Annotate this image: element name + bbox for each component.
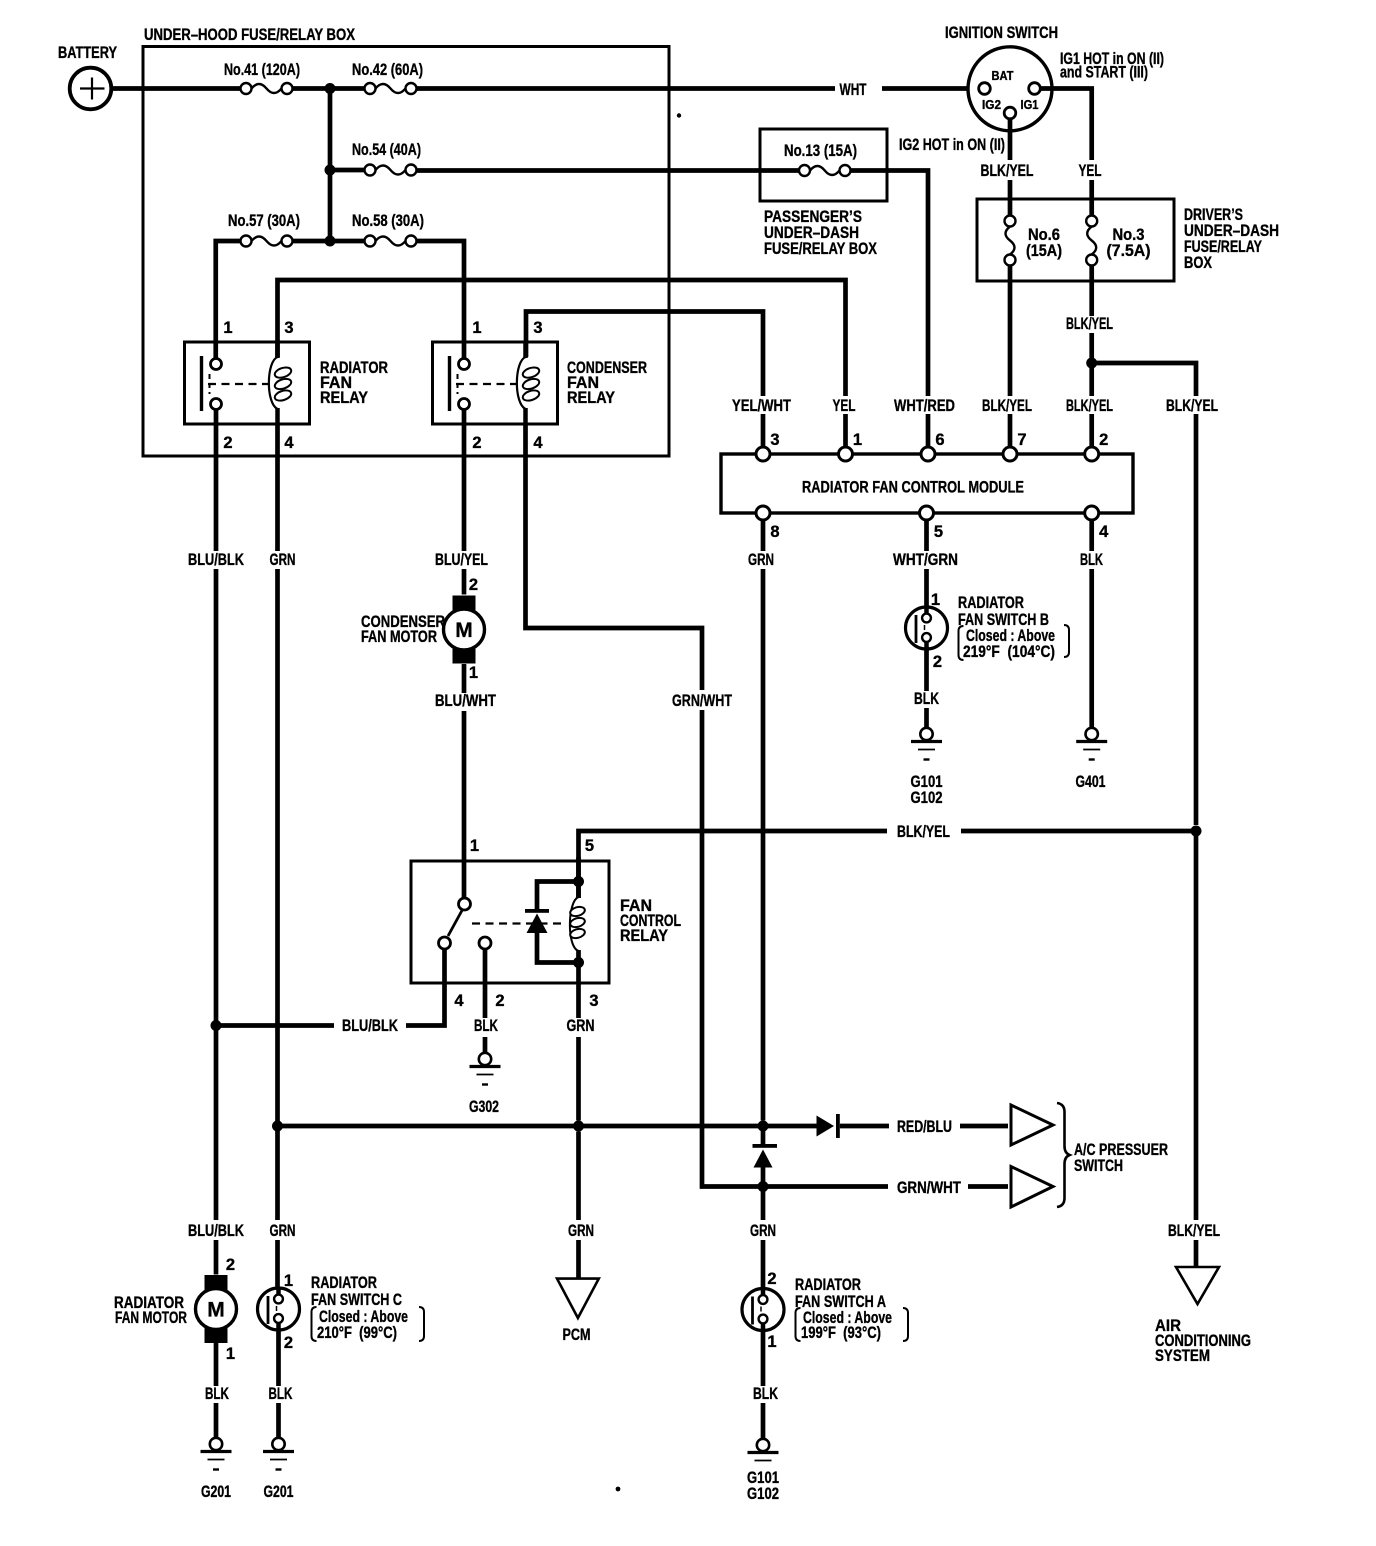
radiator fan switch C (258, 1288, 300, 1330)
svg-text:5: 5 (585, 837, 594, 855)
svg-text:4: 4 (284, 434, 294, 452)
wire trunk node A down (328, 89, 333, 242)
ground G101 G102 bottom (748, 1439, 779, 1461)
condenser fan relay box (433, 342, 558, 424)
svg-text:RADIATOR FAN CONTROL MODULE: RADIATOR FAN CONTROL MODULE (802, 478, 1024, 497)
svg-text:YEL/WHT: YEL/WHT (732, 397, 791, 415)
svg-text:M: M (207, 1299, 225, 1322)
svg-text:WHT/GRN: WHT/GRN (893, 551, 958, 569)
label BLU/YEL (432, 551, 491, 569)
label YEL/WHT at module pin 3 (729, 396, 794, 414)
label CONDENSER FAN RELAY (567, 359, 647, 407)
diode D2 horizontal (817, 1114, 840, 1138)
label RADIATOR FAN MOTOR (114, 1294, 187, 1327)
svg-text:210°F (99°C): 210°F (99°C) (317, 1324, 397, 1342)
wire WHT fuse No.42 to ignition BAT (417, 86, 979, 91)
fan control relay coil (569, 857, 586, 983)
module pin 5 circle (920, 506, 934, 520)
label GRN upper left (264, 551, 301, 569)
wire WHT/RED fuse No.13 to module pin 6 (851, 171, 929, 448)
svg-text:BLK/YEL: BLK/YEL (1166, 397, 1218, 415)
svg-text:1: 1 (767, 1333, 776, 1351)
wire WHT/GRN module pin 5 to switch B (924, 520, 929, 607)
svg-text:2: 2 (226, 1256, 235, 1274)
svg-text:WHT/RED: WHT/RED (894, 397, 955, 415)
bracket right switch B (1064, 625, 1069, 657)
svg-text:5: 5 (934, 523, 943, 541)
wire BLU/WHT condenser motor to fan control relay pin 1 (462, 664, 467, 899)
label YEL (1074, 161, 1106, 180)
svg-text:GRN/WHT: GRN/WHT (897, 1179, 961, 1197)
passenger's under-dash fuse/relay box outline (760, 129, 887, 201)
ground G201 left (201, 1438, 232, 1470)
junction BLK/YEL branch (1086, 358, 1097, 369)
module pin 7 circle (1003, 447, 1017, 461)
air conditioning connector triangle (1176, 1267, 1219, 1304)
fuse No.58 (30A) (365, 236, 417, 247)
svg-text:2: 2 (472, 434, 481, 452)
wire YEL/WHT segment to module pin 3 (761, 414, 766, 448)
svg-text:No.57 (30A): No.57 (30A) (228, 212, 300, 230)
label BLK switch A (750, 1386, 781, 1403)
junction GRN/WHT wire (758, 1181, 769, 1192)
fan control relay switch arm (448, 910, 463, 937)
svg-text:8: 8 (770, 523, 779, 541)
svg-text:RADIATOR: RADIATOR (958, 594, 1024, 612)
svg-text:2: 2 (767, 1270, 776, 1288)
fuse No.13 (15A) (799, 165, 851, 176)
under-hood fuse/relay box outline (143, 47, 669, 457)
junction BLU/BLK at fan control relay pin 4 wire (211, 1020, 222, 1031)
svg-text:219°F (104°C): 219°F (104°C) (963, 643, 1055, 661)
svg-text:BLK/YEL: BLK/YEL (897, 823, 950, 841)
svg-text:M: M (455, 619, 473, 642)
radiator fan relay box (185, 342, 310, 424)
svg-text:1: 1 (472, 319, 481, 337)
label BLK/YEL at module pin 2 (1063, 396, 1116, 414)
label G101 G102 mid (911, 773, 943, 807)
svg-text:IG1: IG1 (1021, 98, 1039, 112)
svg-text:3: 3 (770, 431, 779, 449)
condenser fan relay internals (450, 342, 541, 424)
svg-text:BLU/WHT: BLU/WHT (435, 692, 496, 710)
ignition pin BAT (979, 83, 991, 95)
bracket left switch C (312, 1307, 317, 1341)
wire BLK radiator motor to ground G201 (214, 1343, 219, 1438)
svg-text:BLU/YEL: BLU/YEL (435, 551, 488, 569)
fan control relay box (411, 861, 609, 983)
svg-text:GRN: GRN (567, 1017, 595, 1035)
fuse No.6 (15A) (1005, 216, 1016, 266)
svg-text:G102: G102 (747, 1485, 779, 1503)
wire trunk to fuse No.58 (330, 239, 365, 244)
svg-text:1: 1 (223, 319, 232, 337)
wire ignition IG2 to driver fuse No.6 (1008, 119, 1013, 216)
svg-text:RELAY: RELAY (320, 389, 368, 407)
label YEL at module pin 1 (829, 396, 859, 414)
fan control relay dashed link (472, 922, 563, 924)
label G101 G102 bottom (747, 1469, 779, 1503)
module pin 4 circle (1085, 506, 1099, 520)
wire ignition IG1 to driver fuse No.3 (1040, 89, 1091, 216)
wire BLK/YEL fuse No.6 to module pin 7 (1008, 266, 1013, 448)
junction GRN column at long wire (758, 1121, 769, 1132)
svg-text:No.41 (120A): No.41 (120A) (224, 61, 300, 79)
wire GRN module pin 8 down (761, 520, 766, 1121)
wire BLU/BLK radiator relay pin 2 down to motor (214, 410, 219, 1275)
svg-text:RADIATOR: RADIATOR (795, 1276, 861, 1294)
svg-text:BATTERY: BATTERY (58, 44, 117, 62)
wire GRN radiator relay pin 4 down to switch C (275, 424, 280, 1288)
module pin 6 circle (921, 447, 935, 461)
wire radiator relay pin 3 to module pin 1 (278, 280, 846, 396)
svg-text:1: 1 (853, 431, 862, 449)
svg-text:BLU/BLK: BLU/BLK (342, 1017, 398, 1035)
svg-text:GRN: GRN (750, 1222, 776, 1240)
svg-text:(15A): (15A) (1026, 242, 1062, 260)
svg-text:G302: G302 (469, 1098, 499, 1116)
label BLK/YEL on horizontal (889, 822, 959, 841)
svg-text:1: 1 (284, 1272, 293, 1290)
ignition switch circle (968, 47, 1052, 131)
radiator fan relay internals (202, 342, 293, 424)
svg-text:RELAY: RELAY (567, 389, 615, 407)
svg-text:IGNITION SWITCH: IGNITION SWITCH (945, 24, 1058, 42)
fuse No.3 (7.5A) (1086, 216, 1097, 266)
radiator fan control module box (721, 454, 1133, 513)
wire GRN column down to switch A (761, 1187, 766, 1289)
wire BLK switch B to ground (924, 649, 929, 728)
svg-text:SYSTEM: SYSTEM (1155, 1347, 1210, 1365)
svg-text:G102: G102 (911, 789, 943, 807)
label GRN/WHT column (669, 691, 735, 710)
label GRN at pin 3 (563, 1018, 597, 1036)
fan control relay contact pin 2 (479, 937, 491, 949)
svg-text:6: 6 (935, 431, 944, 449)
module pin 2 circle (1085, 447, 1099, 461)
label BLU/BLK lower (185, 1221, 247, 1240)
junction GRN wire at fan relay pin3 (573, 1121, 584, 1132)
svg-text:No.42 (60A): No.42 (60A) (352, 61, 423, 79)
label RED/BLU (891, 1118, 959, 1136)
svg-text:WHT: WHT (840, 81, 867, 99)
wire fan relay pin 4 to BLU/BLK junction (216, 949, 445, 1026)
wire BLK switch C to ground G201 (276, 1330, 281, 1438)
svg-text:1: 1 (931, 591, 940, 609)
svg-text:PCM: PCM (563, 1326, 591, 1344)
ground G401 (1076, 728, 1107, 760)
wire battery to fuse No.41 (111, 86, 241, 91)
svg-text:G201: G201 (264, 1483, 294, 1501)
svg-text:3: 3 (589, 992, 598, 1010)
svg-text:BLK: BLK (474, 1017, 498, 1035)
svg-text:FAN MOTOR: FAN MOTOR (361, 628, 437, 646)
wire RED/BLU diode D2 to A/C switch (840, 1124, 1008, 1129)
brace A/C pressure switch (1057, 1103, 1070, 1207)
svg-text:4: 4 (454, 992, 464, 1010)
condenser fan motor M2 (444, 596, 485, 664)
svg-text:and START (III): and START (III) (1060, 64, 1148, 82)
wire fuse No.57 to trunk (293, 239, 331, 244)
ignition pin IG2 (1004, 107, 1016, 119)
label BLK/YEL right column (1163, 396, 1221, 414)
wire GRN column through diode D3 (761, 1126, 766, 1187)
label BLK/YEL at module pin 7 (979, 396, 1035, 414)
svg-text:GRN: GRN (748, 551, 774, 569)
label GRN lower left (264, 1221, 301, 1240)
module pin 3 circle (756, 447, 770, 461)
ground G201 right (263, 1438, 294, 1470)
label No.6 (15A) (1026, 226, 1062, 260)
wire diode D1 bottom lead (537, 933, 576, 963)
bracket left switch A (796, 1308, 801, 1341)
svg-text:No.58 (30A): No.58 (30A) (352, 212, 424, 230)
wire fuse No.58 right leg down to condenser relay pin 1 (417, 241, 465, 358)
A/C pressure switch connector triangle 1 (1011, 1105, 1053, 1145)
wire YEL segment to module pin 1 (843, 414, 848, 448)
fan control relay contact pin 4 (439, 937, 451, 949)
fuse No.42 (60A) (365, 83, 417, 94)
label BLK at G302 (471, 1018, 501, 1036)
junction BLK/YEL column (1191, 826, 1202, 837)
label GRN above PCM (563, 1221, 599, 1240)
label BLK radiator motor (202, 1386, 232, 1403)
label DRIVER'S UNDER-DASH FUSE/RELAY BOX (1184, 206, 1279, 272)
svg-text:BLK/YEL: BLK/YEL (1066, 397, 1113, 415)
svg-text:(7.5A): (7.5A) (1107, 242, 1151, 260)
svg-text:7: 7 (1017, 431, 1026, 449)
label BLU/WHT (432, 693, 499, 711)
label CONDENSER FAN MOTOR (361, 613, 445, 646)
svg-text:BLU/BLK: BLU/BLK (188, 551, 244, 569)
fuse No.54 (40A) (365, 165, 417, 176)
wire BLK module pin 4 to ground G401 (1089, 520, 1094, 728)
svg-text:RELAY: RELAY (620, 927, 668, 945)
svg-text:GRN/WHT: GRN/WHT (672, 692, 732, 710)
svg-text:BLK: BLK (914, 690, 939, 708)
svg-text:4: 4 (1099, 523, 1109, 541)
wire fuse No.57 left leg down to relay pin 1 (216, 241, 241, 358)
svg-text:2: 2 (495, 992, 504, 1010)
label IG1 HOT in ON (II) and START (III) (1060, 50, 1164, 82)
svg-text:G401: G401 (1076, 773, 1106, 791)
label BLK/YEL bottom (1165, 1221, 1223, 1240)
label BLK/YEL under IG2 (977, 161, 1037, 180)
label A/C PRESSUER SWITCH (1074, 1141, 1168, 1175)
junction node A (325, 83, 336, 94)
svg-text:2: 2 (1099, 431, 1108, 449)
module pin 1 circle (839, 447, 853, 461)
driver's under-dash fuse/relay box outline (977, 199, 1174, 281)
wire diode D1 top lead (537, 882, 576, 910)
wire fuse No.41 to node A (293, 86, 365, 91)
label BLU/BLK upper (185, 551, 247, 569)
battery B1 (70, 68, 112, 110)
svg-text:YEL: YEL (1079, 162, 1102, 180)
svg-text:BLK/YEL: BLK/YEL (1066, 315, 1113, 333)
label WHT/GRN (890, 551, 961, 569)
svg-text:FUSE/RELAY BOX: FUSE/RELAY BOX (764, 240, 877, 258)
diode D3 vertical (753, 1144, 778, 1168)
PCM connector triangle (557, 1279, 599, 1318)
ground G101 G102 mid (911, 728, 942, 760)
label WHT/RED at module pin 6 (891, 396, 958, 414)
label FAN CONTROL RELAY (620, 897, 681, 945)
label BLK below pin 4 (1077, 551, 1106, 569)
svg-text:2: 2 (223, 434, 232, 452)
wire condenser relay pin 3 to module pin 3 (526, 312, 763, 397)
svg-text:2: 2 (469, 576, 478, 594)
wire GRN long horizontal to diode D2 (278, 1124, 817, 1129)
svg-text:GRN: GRN (270, 1222, 296, 1240)
svg-text:G201: G201 (201, 1483, 231, 1501)
wire BLK/YEL column to air conditioning (1194, 831, 1199, 1266)
svg-text:2: 2 (933, 653, 942, 671)
label RADIATOR FAN RELAY (320, 359, 388, 407)
wire BLK/YEL fuse No.3 to module pin 2 (1089, 266, 1094, 448)
svg-text:BLU/BLK: BLU/BLK (188, 1222, 244, 1240)
bracket right switch C (419, 1307, 424, 1341)
label AIR CONDITIONING SYSTEM (1155, 1317, 1251, 1365)
ground G302 (470, 1053, 501, 1085)
diode D1 in fan control relay (525, 909, 549, 933)
svg-text:SWITCH: SWITCH (1074, 1157, 1123, 1175)
label GRN above switch A (745, 1221, 781, 1240)
label No.3 (7.5A) (1107, 226, 1151, 260)
svg-text:199°F (93°C): 199°F (93°C) (801, 1324, 881, 1342)
A/C pressure switch connector triangle 2 (1011, 1167, 1053, 1208)
fan control relay switch pivot (459, 898, 471, 910)
label BLU/BLK on pin4 wire (337, 1017, 403, 1035)
svg-text:YEL: YEL (833, 397, 856, 415)
svg-text:IG2 HOT in ON (II): IG2 HOT in ON (II) (899, 136, 1005, 154)
wire BLU/YEL condenser relay pin 2 to condenser motor (462, 410, 467, 595)
svg-text:BLK: BLK (205, 1385, 229, 1403)
fuse No.41 (120A) (241, 83, 293, 94)
svg-text:FAN SWITCH C: FAN SWITCH C (311, 1291, 402, 1309)
svg-text:RADIATOR: RADIATOR (311, 1274, 377, 1292)
svg-text:1: 1 (470, 837, 479, 855)
svg-text:GRN: GRN (568, 1222, 594, 1240)
stray dot artifact right (677, 113, 681, 117)
junction coil bottom (573, 957, 584, 968)
svg-text:3: 3 (284, 319, 293, 337)
label RADIATOR FAN SWITCH B (958, 594, 1055, 661)
wire BLK/YEL branch to right column (1092, 363, 1196, 825)
fuse No.57 (30A) (241, 236, 293, 247)
label BLK/YEL above junction (1063, 316, 1116, 333)
svg-text:1: 1 (226, 1345, 235, 1363)
module pin 8 circle (756, 506, 770, 520)
radiator fan motor M1 (196, 1275, 237, 1343)
svg-text:BLK: BLK (1080, 551, 1103, 569)
junction coil top (573, 876, 584, 887)
label RADIATOR FAN SWITCH A (795, 1276, 892, 1342)
bracket right switch A (903, 1308, 908, 1341)
bracket left switch B (959, 626, 964, 660)
svg-text:4: 4 (533, 434, 543, 452)
svg-text:BOX: BOX (1184, 254, 1212, 272)
svg-text:BLK/YEL: BLK/YEL (981, 162, 1034, 180)
svg-text:FAN MOTOR: FAN MOTOR (115, 1309, 187, 1327)
svg-text:BLK: BLK (269, 1385, 293, 1403)
svg-text:BLK/YEL: BLK/YEL (1168, 1222, 1220, 1240)
svg-text:No.54 (40A): No.54 (40A) (352, 141, 421, 159)
wire trunk to fuse No.54 (330, 168, 365, 173)
svg-text:BAT: BAT (992, 69, 1014, 83)
svg-text:RED/BLU: RED/BLU (897, 1118, 952, 1136)
svg-text:UNDER–HOOD FUSE/RELAY BOX: UNDER–HOOD FUSE/RELAY BOX (144, 26, 355, 44)
svg-text:IG2: IG2 (982, 98, 1001, 112)
label BLK below switch B (911, 691, 942, 708)
label PASSENGER'S UNDER-DASH FUSE/RELAY BOX (764, 208, 877, 258)
svg-text:No.13 (15A): No.13 (15A) (784, 142, 857, 160)
junction trunk at No.57 row (325, 236, 336, 247)
label BLK switch C (265, 1386, 295, 1403)
svg-text:1: 1 (469, 664, 478, 682)
wire GRN fan relay pin 3 down to PCM (576, 983, 581, 1279)
ignition pin IG1 (1029, 83, 1041, 95)
junction GRN at long wire (272, 1121, 283, 1132)
svg-text:BLK: BLK (753, 1385, 778, 1403)
svg-text:GRN: GRN (270, 551, 296, 569)
wire BLK fan relay pin 2 to ground G302 (483, 949, 488, 1053)
svg-text:2: 2 (284, 1334, 293, 1352)
stray dot artifact bottom (616, 1487, 621, 1492)
radiator fan switch A (742, 1289, 784, 1331)
wire BLK/YEL fan relay pin 5 to right column (579, 831, 1197, 898)
label GRN below pin 8 (745, 551, 777, 569)
wire fuse No.54 to fuse No.13 (417, 168, 800, 173)
svg-text:BLK/YEL: BLK/YEL (982, 397, 1032, 415)
junction trunk at No.54 row (325, 165, 336, 176)
wire condenser relay pin 4 to A/C switch (GRN/WHT) (526, 424, 1009, 1187)
label GRN/WHT to A/C switch (893, 1179, 967, 1197)
label RADIATOR FAN SWITCH C (311, 1274, 408, 1342)
svg-text:3: 3 (533, 319, 542, 337)
wire BLK switch A to ground (761, 1331, 766, 1439)
radiator fan switch B (906, 607, 948, 649)
